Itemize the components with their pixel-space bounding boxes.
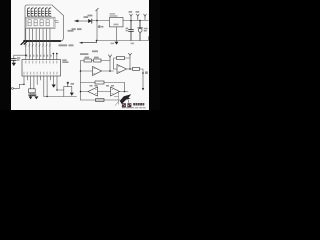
- capacitor C2: [129, 21, 134, 41]
- capacitor C1: [11, 59, 16, 63]
- +5V arrow 3: [144, 14, 147, 20]
- watermark wire stubs: [114, 92, 118, 104]
- lower stage feedback top: [81, 82, 125, 84]
- wire pin x57 to switch: [57, 89, 64, 91]
- display module outline: [21, 5, 64, 45]
- resistor R3: [117, 57, 125, 60]
- U3a +/- marks: [94, 69, 95, 74]
- capacitor C3 (electrolytic): [138, 21, 143, 41]
- wire bus display to IC (8 wires): [26, 29, 50, 60]
- ground (S1): [70, 93, 74, 96]
- input vertical: [96, 10, 98, 40]
- arrow labels: [129, 11, 140, 13]
- ground (xtal left): [29, 96, 33, 99]
- opamp stage texts: [80, 53, 99, 58]
- U3d +/- marks: [112, 90, 113, 94]
- watermark bold glyph 2: [127, 103, 131, 107]
- IC2 label: [62, 59, 68, 63]
- display pin coil 7: [49, 8, 51, 16]
- wire diode to regulator: [92, 20, 109, 22]
- U3b output: [127, 68, 133, 70]
- ground (rail): [115, 27, 119, 45]
- crystal X1: [29, 89, 36, 93]
- regulator IC1: [110, 18, 124, 27]
- watermark bold glyph 1: [122, 103, 126, 107]
- display digit 8 (3): [40, 20, 43, 26]
- wire R4 to vertical: [140, 69, 144, 88]
- U3c opamp (points left): [88, 87, 98, 96]
- IC2 pin name strips bottom: [23, 72, 57, 75]
- opamp U3b: [117, 65, 127, 74]
- display digit 8 (1): [28, 20, 31, 26]
- 0V rail: [97, 37, 148, 41]
- display pin coil 6: [45, 8, 47, 16]
- opamp U3d: [111, 87, 120, 96]
- ground (xtal right): [34, 96, 38, 99]
- watermark url: [122, 107, 146, 108]
- wire to terminal (left of crystal): [13, 84, 24, 88]
- wire regulator out: [123, 20, 148, 22]
- display pin coil 1: [28, 8, 30, 16]
- feedback vertical right: [124, 83, 126, 92]
- IC2 bottom pins: [24, 76, 57, 97]
- capacitor (xtal left): [29, 94, 33, 96]
- left bus vertical: [80, 61, 82, 101]
- node C3: [139, 20, 141, 22]
- +5V arrow 1: [130, 14, 133, 20]
- ground (pin at x53.7): [52, 85, 56, 88]
- display pin coil 2: [31, 8, 33, 16]
- U3b input wire: [114, 68, 118, 70]
- display right stub: [54, 21, 59, 23]
- U3c labels: [90, 85, 115, 87]
- C3 label: [144, 28, 148, 32]
- capacitor (xtal right): [32, 94, 36, 96]
- opamp U3a: [93, 67, 102, 76]
- wire U3c to U3d: [98, 91, 111, 93]
- U3a input wire: [81, 70, 93, 72]
- watermark bird tassel: [128, 99, 129, 103]
- resistor R6: [96, 99, 105, 102]
- bottom wire: [81, 99, 121, 101]
- junction dots top stubs: [53, 53, 58, 55]
- rail node: [46, 96, 47, 97]
- node C2: [130, 20, 132, 22]
- resistor R2: [94, 59, 102, 62]
- diode D1: [88, 19, 92, 23]
- arrow down on vertical: [142, 88, 144, 91]
- node diode-cathode: [96, 20, 98, 22]
- display pin coil 5: [42, 8, 44, 16]
- supply arrow (stage2): [129, 53, 132, 57]
- input slash: [96, 8, 99, 11]
- IC U2 (microcontroller): [22, 60, 61, 77]
- U3d output: [120, 91, 129, 93]
- resistor R1: [84, 59, 92, 62]
- wire hop ticks: [25, 45, 51, 47]
- U3c output wire: [81, 91, 89, 93]
- bottom rail: [44, 96, 77, 98]
- resistor R4: [133, 67, 140, 70]
- display DS1 body: [25, 17, 55, 28]
- display pin coil 4: [38, 8, 40, 16]
- display digit 8 (2): [34, 20, 37, 26]
- feedback wire stage1: [81, 61, 111, 72]
- resistor R5: [95, 81, 104, 84]
- S1 vertical: [64, 87, 72, 97]
- battery label: [98, 25, 103, 28]
- left arrow (to display): [78, 20, 88, 22]
- watermark bird: [120, 94, 131, 104]
- IC2 extra top stubs: [53, 53, 56, 60]
- IC1 labels: [110, 13, 119, 25]
- C1 label: [17, 57, 20, 61]
- +5V arrow 2: [137, 14, 140, 20]
- U3b +/- marks: [118, 67, 119, 72]
- U3a output wire: [102, 70, 114, 72]
- rail left arrow: [82, 41, 96, 43]
- IC2 pin name strips top: [25, 61, 57, 64]
- ground (C1): [12, 63, 16, 66]
- supply arrow (stage1): [109, 55, 112, 60]
- crystal pin joins: [31, 93, 34, 94]
- display digit 8 (4): [46, 20, 49, 26]
- node: [23, 84, 24, 85]
- C2 label: [126, 28, 129, 32]
- open terminal: [12, 88, 14, 90]
- node pin1: [25, 54, 27, 56]
- capacitor C1 wire: [14, 55, 26, 58]
- watermark small CJK row: [133, 103, 144, 106]
- U3c +/- marks: [95, 90, 96, 94]
- switch S1: [64, 82, 72, 87]
- S1 label: [71, 83, 74, 85]
- stage2 feedback: [114, 58, 131, 69]
- rail labels: [111, 43, 135, 45]
- display pin coil 3: [35, 8, 37, 16]
- pin number specks: [26, 55, 51, 57]
- label misc gray texts: [59, 15, 99, 53]
